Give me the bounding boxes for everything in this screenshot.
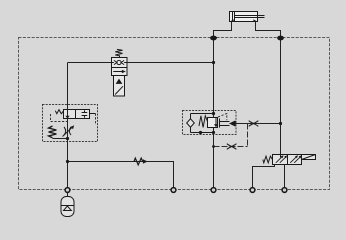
pilot triangle [229,120,236,126]
reducing valve frame left [191,114,214,133]
variable throttle (left block) [63,127,73,137]
sequence valve V1 check symbol [112,60,128,64]
wire: D1 tank port right [284,165,286,188]
accumulator [61,197,74,217]
wire: A-line vertical [213,38,215,188]
compensator pilot stub right [90,113,96,115]
compensator spring [55,110,63,114]
spring-loaded check in bypass line [134,158,143,165]
compensator blocked ports [82,110,88,118]
sequence valve V1 body [112,58,128,76]
reducing valve stem plate [219,119,221,128]
junction dot B/reduced line [279,122,282,125]
accumulator stub [67,193,69,197]
cylinder port marks [230,19,234,21]
wire: horizontal feed line [68,62,214,64]
reducing valve body [208,118,218,128]
filter F1 [187,119,195,127]
subplate enclosure (pressure reducing valve block) [183,111,237,135]
D1 stub of B-line into body [280,155,282,158]
junction dot feed/A-line [212,61,215,64]
D1 spring [263,156,273,163]
D1 left position arrows [276,156,283,162]
junction dot bypass [66,160,69,163]
cylinder C1 [230,12,265,22]
compensator pilot dashes left [51,114,68,122]
directional valve D1 body [273,155,302,165]
sequence valve V1 arrow position [113,71,123,73]
pressure compensator valve body (2 squares) [64,110,90,119]
junction dot drain [66,137,69,140]
reducing valve internal arrow [215,118,217,125]
sequence valve V1 pilot section [114,76,125,97]
wire: cylinder right port to B-line [256,22,281,39]
wire: reduced pressure line [236,123,281,125]
reducing valve pilot dashes [218,114,227,121]
grommet junction A on boundary [210,36,217,41]
wire: B-line vertical [280,38,282,155]
compensator flow arrowhead [65,116,69,119]
junction dots reducing valve [212,112,215,115]
sequence valve V1 spring [115,49,122,57]
wire: D1 tank port left [253,165,275,188]
spring stack symbol [49,126,57,138]
system boundary dashed enclosure [19,38,330,190]
D1 right position arrow [290,156,297,162]
spring stack drain line [53,138,68,140]
reducing valve spring [199,116,208,128]
wire: left branch vertical [67,63,69,189]
wire: cylinder left port to A-line [214,22,232,39]
wire: bypass line with spring-check to tank bus [68,162,174,188]
subplate enclosure (left flow-control valve block) [43,105,98,142]
tank bus rings [65,188,287,193]
grommet junction B on boundary [277,36,284,41]
fixed orifice upper [249,121,259,127]
fixed orifice lower [227,144,237,150]
D1 solenoid [302,155,316,160]
pilot line to lower orifice [214,146,248,148]
